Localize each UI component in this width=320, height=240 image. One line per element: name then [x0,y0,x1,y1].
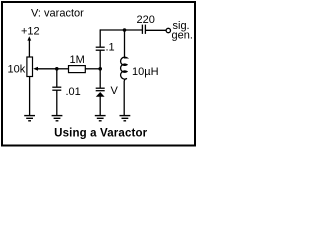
svg-text:V: varactor: V: varactor [31,8,84,20]
wire 220 to terminal [145,29,166,31]
wire top rail [100,29,142,31]
ground under inductor [120,116,131,121]
resistor R2 1M body [69,66,86,73]
wire to 1M [57,68,69,70]
wire varactor to ground [99,97,101,116]
svg-text:220: 220 [137,14,155,26]
border frame [2,2,195,146]
terminal sig. gen. circle [166,28,170,32]
potentiometer wiper arrow [33,67,57,71]
wire 1M to node B [85,68,100,70]
ground under potentiometer [24,116,35,121]
wire C1 to ground [56,90,58,115]
varactor D1 plates [96,88,105,91]
supply +12 arrow [27,36,31,57]
ground under C1 [52,116,63,121]
svg-text:+12: +12 [21,26,40,38]
svg-text:.1: .1 [106,42,115,54]
node C junction (rail / inductor) [123,28,127,32]
svg-text:Using a Varactor: Using a Varactor [54,128,148,140]
node B junction (1M / C2 / varactor) [98,67,102,71]
capacitor C3 220 plates [142,25,145,34]
wire pot bottom lead [29,77,31,116]
svg-text:gen.: gen. [172,30,193,42]
capacitor C2 .1 top lead [99,29,101,47]
svg-text:10µH: 10µH [132,66,159,78]
wire C2 bottom to varactor top through node B [99,50,101,88]
svg-text:10k: 10k [8,64,26,76]
svg-text:.01: .01 [66,86,81,98]
capacitor C1 .01 branch wire [56,69,58,87]
node A junction (wiper / 1M / .01) [55,67,59,71]
capacitor C2 .1 plates [96,47,105,50]
inductor L1 10uH [121,30,127,116]
ground under varactor [95,116,106,121]
potentiometer R1 10k body [27,57,33,77]
svg-text:V: V [111,85,119,97]
varactor D1 triangle [96,92,105,97]
capacitor C1 .01 plates [52,87,61,90]
svg-text:1M: 1M [70,54,85,66]
